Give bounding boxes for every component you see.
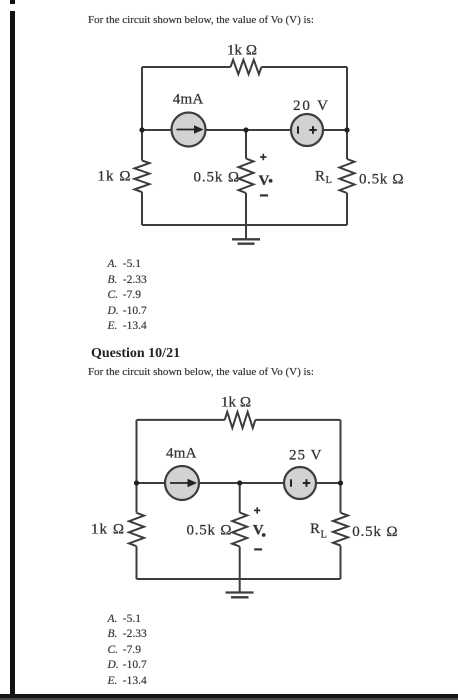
svg-text:4mA: 4mA — [173, 92, 204, 108]
svg-text:1k Ω: 1k Ω — [98, 168, 131, 184]
svg-text:L: L — [321, 529, 327, 540]
svg-text:25 V: 25 V — [289, 448, 322, 464]
svg-text:4mA: 4mA — [166, 446, 197, 462]
svg-text:1k Ω: 1k Ω — [91, 521, 124, 537]
svg-text:20 V: 20 V — [293, 98, 328, 114]
svg-text:0.5k Ω: 0.5k Ω — [359, 172, 404, 188]
svg-text:R: R — [315, 169, 325, 185]
svg-text:0.5k Ω: 0.5k Ω — [352, 524, 397, 540]
svg-text:L: L — [326, 175, 332, 186]
svg-text:1k Ω: 1k Ω — [227, 43, 257, 59]
svg-text:0.5k Ω: 0.5k Ω — [194, 170, 240, 186]
svg-text:V: V — [259, 173, 270, 189]
svg-text:R: R — [310, 521, 320, 537]
svg-text:1k Ω: 1k Ω — [221, 395, 251, 411]
svg-text:0.5k Ω: 0.5k Ω — [187, 523, 232, 539]
svg-text:V: V — [253, 522, 264, 538]
